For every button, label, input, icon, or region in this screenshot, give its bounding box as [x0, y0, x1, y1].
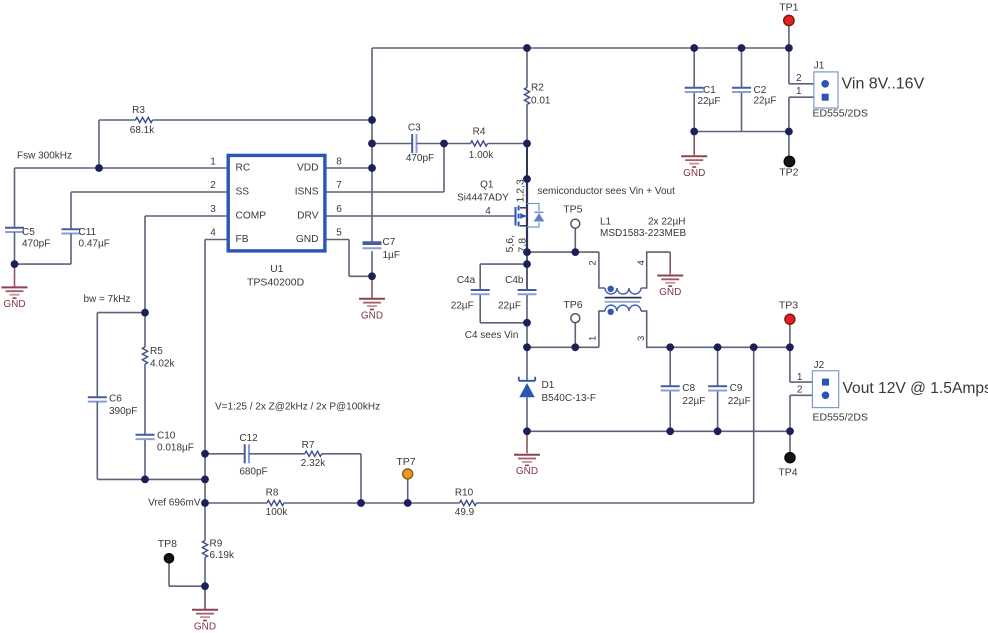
svg-text:3: 3: [636, 336, 647, 341]
svg-text:470pF: 470pF: [406, 153, 434, 164]
svg-text:TP2: TP2: [779, 166, 798, 178]
svg-text:GND: GND: [3, 299, 25, 310]
svg-text:68.1k: 68.1k: [130, 125, 155, 136]
svg-text:C2: C2: [754, 85, 767, 96]
svg-text:C1: C1: [703, 85, 716, 96]
svg-text:R10: R10: [455, 487, 474, 498]
svg-text:22µF: 22µF: [498, 300, 521, 311]
svg-text:Vref 696mV: Vref 696mV: [148, 498, 201, 509]
svg-text:ED555/2DS: ED555/2DS: [813, 412, 868, 424]
svg-text:V=1:25 / 2x Z@2kHz / 2x P@100k: V=1:25 / 2x Z@2kHz / 2x P@100kHz: [215, 402, 380, 413]
svg-text:7: 7: [336, 180, 342, 191]
svg-text:TP6: TP6: [563, 299, 582, 311]
svg-text:0.47µF: 0.47µF: [79, 239, 110, 250]
svg-text:2: 2: [210, 180, 216, 191]
svg-text:C9: C9: [730, 383, 743, 394]
svg-text:C3: C3: [408, 123, 421, 134]
svg-text:Fsw 300kHz: Fsw 300kHz: [17, 151, 72, 162]
svg-text:U1: U1: [270, 263, 284, 275]
svg-text:C8: C8: [682, 383, 695, 394]
svg-text:1.00k: 1.00k: [469, 150, 494, 161]
svg-text:5: 5: [336, 228, 342, 239]
svg-text:22µF: 22µF: [754, 95, 777, 106]
svg-text:1,2,3: 1,2,3: [515, 179, 527, 203]
svg-text:GND: GND: [296, 234, 319, 245]
svg-text:1: 1: [587, 336, 598, 341]
svg-text:TP8: TP8: [158, 538, 177, 550]
svg-text:2: 2: [797, 385, 803, 396]
svg-text:2: 2: [587, 260, 598, 265]
svg-text:C4a: C4a: [457, 275, 476, 286]
svg-text:0.01: 0.01: [531, 96, 551, 107]
svg-text:TP3: TP3: [779, 300, 798, 312]
svg-text:L1: L1: [600, 217, 612, 228]
svg-text:MSD1583-223MEB: MSD1583-223MEB: [600, 228, 686, 239]
svg-text:2x 22µH: 2x 22µH: [648, 217, 685, 228]
svg-text:470pF: 470pF: [22, 239, 50, 250]
svg-text:7,8: 7,8: [517, 238, 529, 253]
svg-text:R5: R5: [150, 346, 163, 357]
svg-text:1µF: 1µF: [383, 250, 400, 261]
svg-text:4: 4: [636, 260, 647, 265]
svg-text:1: 1: [210, 157, 216, 168]
svg-text:GND: GND: [361, 310, 383, 321]
svg-text:R4: R4: [473, 127, 486, 138]
svg-text:GND: GND: [659, 287, 681, 298]
svg-text:D1: D1: [542, 380, 555, 391]
svg-text:2: 2: [796, 73, 802, 84]
svg-text:TP1: TP1: [779, 2, 798, 14]
svg-text:GND: GND: [194, 621, 216, 632]
svg-text:C7: C7: [383, 237, 396, 248]
svg-text:ISNS: ISNS: [295, 187, 319, 198]
svg-text:C12: C12: [239, 433, 258, 444]
svg-text:4: 4: [485, 206, 491, 217]
svg-text:RC: RC: [236, 163, 251, 174]
svg-text:0.018µF: 0.018µF: [157, 442, 194, 453]
svg-text:C10: C10: [157, 431, 176, 442]
svg-text:COMP: COMP: [236, 211, 267, 222]
svg-text:C4 sees Vin: C4 sees Vin: [465, 330, 519, 341]
svg-text:6: 6: [336, 204, 342, 215]
svg-text:TPS40200D: TPS40200D: [247, 277, 305, 289]
svg-text:6.19k: 6.19k: [210, 550, 235, 561]
svg-text:680pF: 680pF: [239, 467, 267, 478]
svg-text:TP7: TP7: [396, 456, 415, 468]
svg-text:R7: R7: [302, 440, 315, 451]
svg-text:FB: FB: [236, 234, 249, 245]
svg-text:22µF: 22µF: [728, 396, 751, 407]
svg-text:8: 8: [336, 157, 342, 168]
svg-text:semiconductor sees Vin + Vout: semiconductor sees Vin + Vout: [538, 186, 676, 197]
svg-text:Vin 8V..16V: Vin 8V..16V: [842, 76, 925, 93]
svg-text:SS: SS: [236, 187, 250, 198]
svg-text:C6: C6: [109, 394, 122, 405]
svg-text:ED555/2DS: ED555/2DS: [813, 108, 868, 120]
svg-text:C4b: C4b: [505, 275, 524, 286]
svg-text:R9: R9: [210, 538, 223, 549]
svg-text:22µF: 22µF: [698, 96, 721, 107]
svg-text:Si4447ADY: Si4447ADY: [457, 193, 509, 204]
svg-text:22µF: 22µF: [682, 396, 705, 407]
svg-text:1: 1: [797, 372, 803, 383]
svg-text:J2: J2: [814, 360, 825, 371]
svg-text:2.32k: 2.32k: [301, 458, 326, 469]
svg-text:TP5: TP5: [563, 204, 582, 216]
svg-text:DRV: DRV: [297, 211, 319, 222]
svg-text:R2: R2: [531, 83, 544, 94]
svg-text:3: 3: [210, 204, 216, 215]
svg-text:B540C-13-F: B540C-13-F: [542, 393, 596, 404]
svg-text:R3: R3: [132, 105, 145, 116]
svg-text:R8: R8: [266, 487, 279, 498]
svg-text:4.02k: 4.02k: [150, 358, 175, 369]
svg-text:bw = 7kHz: bw = 7kHz: [84, 294, 131, 305]
svg-text:Vout 12V @ 1.5Amps: Vout 12V @ 1.5Amps: [843, 380, 988, 397]
svg-text:22µF: 22µF: [451, 300, 474, 311]
svg-text:GND: GND: [516, 466, 538, 477]
svg-text:49.9: 49.9: [455, 507, 475, 518]
svg-text:J1: J1: [814, 61, 825, 72]
svg-text:390pF: 390pF: [109, 406, 137, 417]
svg-text:1: 1: [796, 86, 802, 97]
svg-text:C11: C11: [79, 227, 97, 238]
svg-text:GND: GND: [683, 168, 705, 179]
svg-text:VDD: VDD: [297, 163, 319, 174]
svg-text:100k: 100k: [266, 507, 289, 518]
svg-text:Q1: Q1: [480, 179, 494, 190]
svg-text:5,6,: 5,6,: [504, 235, 516, 253]
svg-text:TP4: TP4: [778, 467, 797, 479]
svg-text:4: 4: [210, 228, 216, 239]
svg-text:C5: C5: [22, 227, 35, 238]
